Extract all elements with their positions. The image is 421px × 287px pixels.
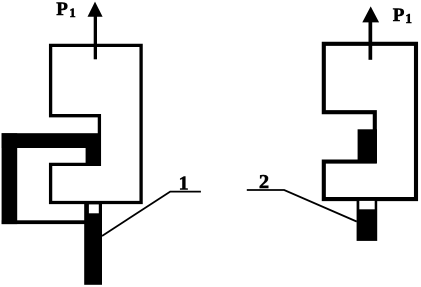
arrow P1 left: shaft [94,10,97,59]
hook part 1: down hook arm inside slot [86,148,101,166]
svg-text:P: P [56,0,68,20]
hook part 1: top arm (band into slot) [2,133,101,148]
right body outline (part with slot) [324,44,416,199]
left body outline (part with slot) [51,45,142,202]
hook part 1: bottom arm [2,220,88,224]
hook part 1: C-bracket left vertical bar [2,133,18,224]
svg-text:1: 1 [69,5,76,20]
block part 2 inside right slot [358,129,377,163]
part 2: white notch in small bar [359,201,374,209]
arrow P1 right: shaft [369,14,373,60]
svg-text:P: P [393,5,405,26]
hook part 1: white notch in central bar [89,204,99,213]
svg-text:1: 1 [405,11,412,26]
svg-text:2: 2 [259,171,269,193]
arrow P1 right: head [362,6,379,22]
leader line to label 1 [102,192,201,236]
part 2: small bar below right body [357,199,378,241]
arrow P1 left: head [88,2,103,17]
hook part 1: central vertical bar below body [84,203,102,285]
svg-text:1: 1 [179,172,189,194]
leader line to label 2 [247,190,357,222]
